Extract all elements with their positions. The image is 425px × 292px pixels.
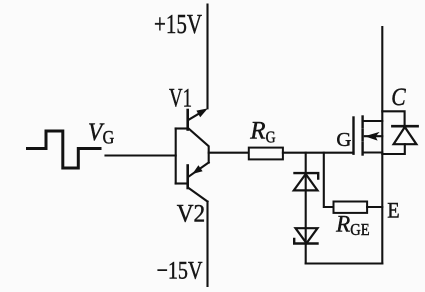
svg-text:V1: V1 <box>169 84 192 113</box>
svg-text:C: C <box>391 84 406 111</box>
svg-text:+15V: +15V <box>154 9 202 39</box>
svg-text:G: G <box>266 127 276 146</box>
svg-text:R: R <box>335 212 350 237</box>
svg-text:V2: V2 <box>177 201 206 228</box>
svg-text:G: G <box>103 128 115 149</box>
svg-text:R: R <box>249 118 265 145</box>
svg-text:G: G <box>336 129 351 151</box>
svg-text:E: E <box>387 197 399 222</box>
svg-text:−15V: −15V <box>157 258 203 285</box>
svg-text:GE: GE <box>350 220 369 239</box>
